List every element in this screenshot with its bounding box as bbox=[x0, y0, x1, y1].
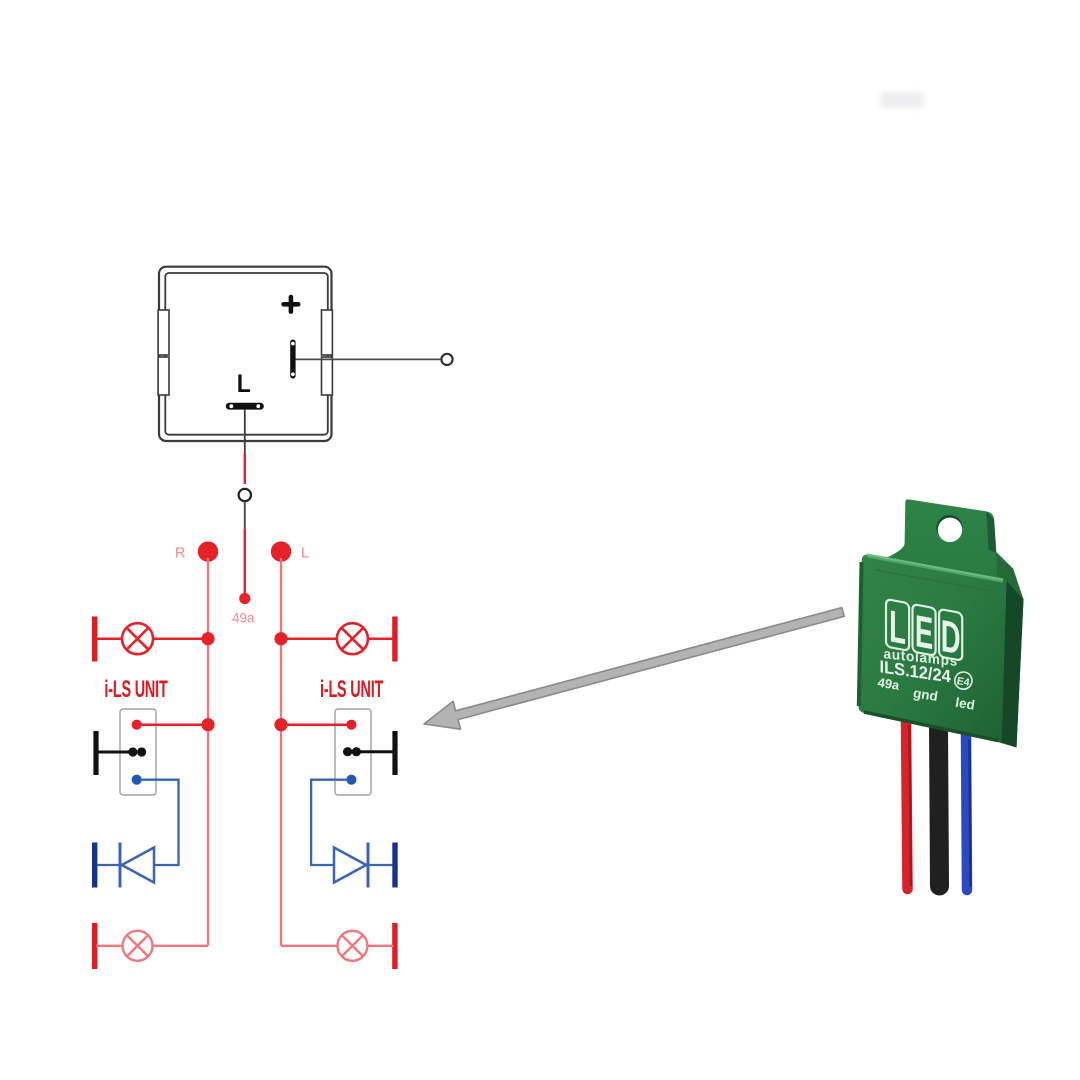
unit wire red bbox=[906, 722, 908, 889]
relay clip tab right lower bbox=[322, 357, 333, 395]
inline connector circle bbox=[239, 489, 251, 501]
unit left edge shade bbox=[859, 562, 862, 706]
diode D2 bbox=[334, 843, 368, 888]
wire lamp bottom-right bbox=[281, 945, 337, 947]
relay clip tab left lower bbox=[158, 357, 169, 395]
i-LS unit box right bbox=[335, 709, 371, 795]
svg-text:L: L bbox=[237, 370, 251, 398]
diode D2 cathode cap bbox=[392, 843, 397, 888]
terminal 49 circle bbox=[441, 354, 452, 365]
ILS flasher unit photo bbox=[858, 499, 1023, 890]
relay clip tab right upper bbox=[322, 310, 333, 355]
wire black left bbox=[96, 751, 133, 754]
junction dot top-right bbox=[274, 632, 287, 645]
svg-text:L: L bbox=[301, 546, 309, 562]
wire below connector dark bbox=[244, 502, 246, 530]
unit inner panel edge bbox=[875, 570, 992, 591]
wire box to bus left bbox=[137, 723, 208, 726]
pin 49a bar bbox=[226, 403, 264, 410]
wire box to bus right bbox=[281, 723, 351, 726]
wire vertical right bbox=[280, 558, 282, 946]
pins black left bbox=[128, 747, 137, 756]
black terminal bar right bbox=[392, 731, 397, 775]
plus label bbox=[284, 297, 299, 312]
relay clip tab left upper bbox=[158, 310, 169, 355]
LED logo bbox=[886, 599, 962, 664]
wire from pin 49 to terminal bbox=[294, 358, 442, 360]
diode D1 cathode cap bbox=[92, 843, 97, 888]
unit wire blue bbox=[966, 735, 967, 890]
unit top bevel highlight bbox=[867, 556, 1003, 581]
lamp bottom-right terminal cap bbox=[392, 923, 397, 969]
lamp top-left terminal cap bbox=[92, 617, 97, 662]
svg-text:led: led bbox=[954, 695, 976, 713]
junction dot mid-left bbox=[201, 718, 214, 731]
wire 49a red bbox=[244, 529, 246, 593]
pin red left bbox=[132, 720, 142, 730]
tab hole bbox=[936, 516, 962, 542]
i-LS unit box left bbox=[120, 709, 156, 795]
svg-text:E4: E4 bbox=[956, 675, 971, 689]
unit mounting tab and back silhouette bbox=[884, 499, 1024, 747]
wire L down black bbox=[244, 410, 246, 453]
E-mark bbox=[954, 671, 974, 691]
tab side sliver bbox=[987, 511, 997, 553]
lamp top-right bbox=[337, 623, 368, 654]
wire lamp top-left bbox=[96, 637, 123, 640]
faint watermark smudge bbox=[880, 92, 924, 108]
lamp top-left bbox=[122, 623, 153, 654]
svg-text:R: R bbox=[175, 546, 185, 562]
node R dot bbox=[198, 541, 218, 561]
unit top-right bevel bbox=[996, 552, 1023, 600]
node 49a dot bbox=[239, 593, 250, 604]
svg-text:i-LS UNIT: i-LS UNIT bbox=[320, 676, 383, 703]
lamp top-right terminal cap bbox=[392, 617, 397, 662]
flasher relay U1 outline bbox=[159, 267, 332, 441]
annotation arrow bbox=[424, 608, 844, 730]
unit front face bbox=[858, 555, 1006, 742]
wire L down red bbox=[244, 453, 246, 484]
unit bottom edge shade bbox=[864, 712, 998, 741]
black terminal bar left bbox=[93, 731, 98, 775]
unit side face bbox=[1002, 581, 1024, 748]
junction dot top-left bbox=[201, 632, 214, 645]
lamp bottom-left terminal cap bbox=[92, 923, 97, 969]
svg-text:49a: 49a bbox=[232, 611, 255, 626]
svg-text:i-LS UNIT: i-LS UNIT bbox=[104, 676, 167, 703]
pins black right bbox=[343, 747, 352, 756]
wire vertical left bbox=[207, 558, 209, 946]
lamp bottom-left bbox=[123, 931, 153, 961]
node L dot bbox=[271, 541, 291, 561]
diode D1 bbox=[120, 843, 154, 888]
lamp bottom-right bbox=[337, 931, 367, 961]
unit wire black bbox=[939, 726, 940, 886]
pin blue left bbox=[132, 775, 142, 785]
wire lamp top-right bbox=[281, 637, 337, 640]
pin blue right bbox=[346, 775, 356, 785]
pin red right bbox=[346, 720, 356, 730]
wire black right bbox=[358, 750, 396, 753]
wire blue right bbox=[311, 780, 394, 865]
wire blue left bbox=[98, 780, 179, 865]
wire lamp bottom-left bbox=[96, 945, 123, 947]
junction dot mid-right bbox=[274, 718, 287, 731]
pin 49 bar bbox=[290, 340, 295, 379]
